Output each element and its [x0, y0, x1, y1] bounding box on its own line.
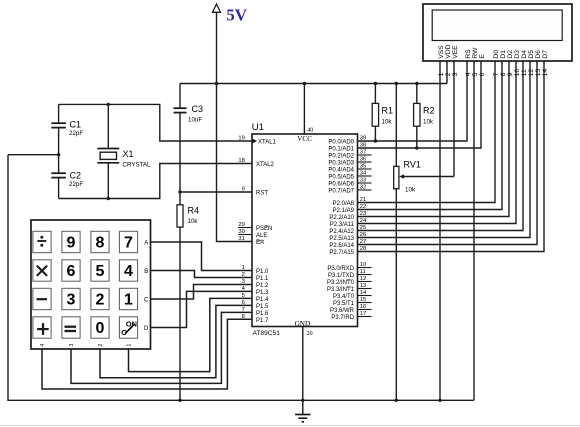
pin P0.6 33 [328, 178, 371, 188]
pin P3.0 10 [327, 262, 371, 272]
svg-text:29: 29 [238, 222, 244, 228]
svg-text:P3.1/TXD: P3.1/TXD [328, 273, 355, 279]
pin P3.1 11 [328, 269, 372, 279]
svg-text:4: 4 [40, 344, 46, 347]
svg-text:1: 1 [124, 292, 133, 309]
svg-text:18: 18 [238, 158, 244, 164]
wire keypad col4 to P1.7 [42, 319, 252, 389]
pin LCD 12 D5 [528, 50, 535, 76]
svg-text:P2.3/A11: P2.3/A11 [330, 222, 355, 228]
pin P3.7 17 [331, 311, 371, 321]
crystal X1 [97, 103, 151, 200]
pin LCD 11 D4 [521, 50, 528, 76]
wire keypad A to P1.0 [151, 242, 253, 271]
keypad button 1 [119, 288, 137, 309]
svg-text:P3.0/RXD: P3.0/RXD [327, 266, 354, 272]
keypad button &#247; [33, 231, 51, 252]
pin P1.3 4 [242, 286, 269, 296]
node A [144, 240, 148, 246]
svg-text:7: 7 [493, 72, 500, 76]
svg-text:12: 12 [360, 276, 366, 282]
pin P0.2 37 [328, 150, 371, 160]
keypad column labels [40, 344, 133, 347]
svg-text:D1: D1 [500, 50, 507, 59]
svg-text:XTAL2: XTAL2 [256, 162, 275, 168]
pin P2.2 23 [329, 211, 366, 221]
pin P2.5 26 [329, 232, 366, 242]
svg-text:12: 12 [528, 69, 535, 77]
svg-text:ALE: ALE [256, 233, 267, 239]
svg-text:22pF: 22pF [69, 181, 83, 188]
resistor R4 [177, 192, 199, 402]
svg-text:3: 3 [67, 292, 76, 309]
keypad button + [33, 317, 51, 338]
wire keypad col2 to P1.5 [100, 305, 252, 377]
pin ALE 30 [238, 229, 267, 239]
pin LCD 3 VEE [452, 45, 459, 77]
op-amp U1 AT89C51 body [252, 122, 358, 337]
pin LCD 7 D0 [493, 50, 500, 76]
keypad button 7 [119, 231, 137, 252]
pin LCD 14 D7 [542, 50, 549, 76]
svg-text:P1.1: P1.1 [256, 276, 269, 282]
svg-text:14: 14 [360, 290, 367, 296]
pin P2.4 25 [329, 225, 366, 235]
svg-text:16: 16 [360, 304, 366, 310]
svg-text:CRYSTAL: CRYSTAL [123, 161, 152, 168]
svg-text:4: 4 [465, 72, 472, 76]
svg-text:P0.4/AD4: P0.4/AD4 [328, 168, 354, 174]
svg-text:33: 33 [360, 178, 366, 184]
wire VCC pin 40 [303, 82, 314, 134]
svg-text:D7: D7 [542, 50, 549, 59]
wire keypad col1 to P1.4 [129, 298, 253, 371]
wire keypad B to P1.1 [151, 271, 253, 278]
svg-text:8: 8 [96, 235, 105, 252]
svg-text:D0: D0 [493, 50, 500, 59]
svg-text:AT89C51: AT89C51 [253, 330, 281, 337]
svg-text:P1.0: P1.0 [256, 269, 269, 275]
keypad button = [62, 317, 80, 338]
keypad button 0 [91, 317, 109, 338]
svg-text:RS: RS [465, 49, 472, 59]
LCD display LM016L body [423, 4, 572, 61]
svg-text:P2.0/A8: P2.0/A8 [333, 201, 355, 207]
svg-text:31: 31 [238, 236, 244, 242]
pin PSEN 29 [238, 222, 272, 232]
wire keypad C to P1.2 [151, 284, 253, 299]
pin P2.1 22 [333, 204, 367, 214]
svg-text:EA: EA [256, 240, 264, 246]
svg-text:D3: D3 [514, 50, 521, 59]
svg-text:P2.1/A9: P2.1/A9 [333, 208, 355, 214]
pin EA 31 [238, 236, 264, 246]
svg-text:C: C [144, 297, 149, 303]
pin P3.3 13 [327, 283, 372, 293]
svg-text:P1.5: P1.5 [256, 304, 269, 310]
svg-text:D: D [144, 326, 149, 332]
svg-text:5: 5 [472, 72, 479, 76]
pin P0.1 38 [328, 143, 366, 153]
svg-text:P2.7/A15: P2.7/A15 [329, 250, 354, 256]
keypad button 8 [91, 231, 109, 252]
node B [144, 269, 148, 275]
svg-text:P0.2/AD2: P0.2/AD2 [328, 154, 354, 160]
svg-text:P0.6/AD6: P0.6/AD6 [328, 182, 354, 188]
pin P2.0 21 [333, 197, 367, 207]
svg-text:RW: RW [472, 47, 479, 59]
svg-text:P1.6: P1.6 [256, 311, 269, 317]
svg-text:R2: R2 [423, 106, 435, 116]
svg-text:37: 37 [360, 150, 366, 156]
pin P0.4 35 [328, 164, 371, 174]
wire P0.0 to LCD RS [358, 61, 468, 141]
svg-text:P0.1/AD1: P0.1/AD1 [328, 147, 354, 153]
svg-text:RST: RST [256, 191, 268, 197]
keypad button 5 [91, 260, 109, 281]
node D [144, 326, 149, 332]
svg-text:14: 14 [542, 69, 549, 77]
wire P2.3 to LCD D3 [358, 61, 517, 224]
svg-text:10uF: 10uF [188, 116, 202, 123]
svg-text:10: 10 [360, 262, 366, 268]
svg-text:P2.2/A10: P2.2/A10 [329, 215, 354, 221]
svg-text:3: 3 [69, 344, 75, 347]
svg-text:10k: 10k [382, 119, 393, 126]
wire P2.0 to LCD D0 [358, 61, 496, 203]
wire keypad D to P1.3 [151, 291, 253, 327]
pin XTAL2 18 [238, 158, 274, 168]
svg-text:P3.6/WR: P3.6/WR [330, 308, 355, 314]
svg-text:1: 1 [438, 72, 445, 76]
svg-text:R1: R1 [382, 106, 394, 116]
svg-text:2: 2 [445, 72, 452, 76]
svg-text:9: 9 [67, 235, 76, 252]
svg-text:22pF: 22pF [69, 130, 83, 137]
pin P2.3 24 [330, 218, 367, 228]
svg-text:P3.3/INT1: P3.3/INT1 [327, 287, 355, 293]
svg-text:P0.5/AD5: P0.5/AD5 [328, 175, 354, 181]
wire P2.2 to LCD D2 [358, 61, 510, 217]
wire P2.6 to LCD D6 [358, 61, 538, 245]
svg-text:10: 10 [514, 69, 521, 77]
pin LCD 2 VDD [445, 44, 452, 76]
svg-text:13: 13 [360, 283, 366, 289]
wire ground rail [8, 155, 474, 401]
node RST junction [178, 190, 181, 193]
svg-text:11: 11 [521, 69, 528, 76]
ground [295, 400, 310, 422]
svg-text:VSS: VSS [438, 45, 445, 59]
pin P1.6 7 [242, 307, 269, 317]
pin LCD 10 D3 [514, 50, 521, 76]
svg-text:P3.7/RD: P3.7/RD [331, 315, 354, 321]
pin P0.5 34 [328, 171, 371, 181]
pin LCD 5 RW [472, 47, 479, 76]
svg-text:40: 40 [307, 127, 313, 133]
svg-text:VDD: VDD [445, 44, 452, 58]
pin P1.5 6 [242, 300, 269, 310]
svg-text:R4: R4 [188, 205, 200, 215]
svg-text:36: 36 [360, 157, 366, 163]
pin P3.2 12 [327, 276, 372, 286]
keypad button 9 [62, 231, 80, 252]
svg-text:P3.2/INT0: P3.2/INT0 [327, 280, 355, 286]
svg-text:6: 6 [479, 72, 486, 76]
resistor R1 [372, 82, 393, 143]
keypad button 6 [62, 260, 80, 281]
pin LCD 13 D6 [535, 50, 542, 76]
pin LCD 9 D2 [507, 50, 514, 76]
svg-text:VCC: VCC [297, 135, 312, 143]
svg-text:19: 19 [238, 136, 244, 142]
svg-text:0: 0 [96, 320, 105, 337]
svg-text:XTAL1: XTAL1 [258, 140, 277, 146]
keypad button &#215; [33, 260, 51, 281]
svg-text:2: 2 [96, 292, 105, 309]
svg-text:P1.7: P1.7 [256, 318, 269, 324]
pin P1.1 2 [242, 272, 269, 282]
svg-text:D2: D2 [507, 50, 514, 59]
pin P1.2 3 [242, 279, 269, 289]
keypad body [31, 220, 151, 349]
svg-text:D5: D5 [528, 50, 535, 59]
svg-text:P3.4/T0: P3.4/T0 [333, 294, 355, 300]
pin LCD 6 E [479, 54, 486, 77]
svg-text:10k: 10k [188, 218, 199, 225]
wire C1-C2 mid to ground [8, 154, 59, 156]
svg-text:C1: C1 [70, 119, 82, 129]
wire P2.5 to LCD D5 [358, 61, 531, 238]
pin P2.6 27 [329, 239, 366, 249]
svg-text:5: 5 [96, 263, 105, 280]
pin P0.0 39 [328, 136, 366, 146]
svg-text:9: 9 [507, 72, 514, 76]
pin LCD 4 RS [465, 49, 472, 76]
pin RST 9 [242, 187, 269, 197]
capacitor C1 [51, 104, 83, 154]
svg-text:3: 3 [452, 72, 459, 76]
svg-text:B: B [144, 269, 148, 275]
capacitor C3 [174, 84, 204, 193]
svg-text:P1.2: P1.2 [256, 283, 269, 289]
svg-text:A: A [144, 240, 148, 246]
pin P0.3 36 [328, 157, 371, 167]
svg-text:1: 1 [127, 344, 133, 347]
pin XTAL1 19 [238, 136, 276, 146]
svg-text:P2.4/A12: P2.4/A12 [329, 229, 354, 235]
power 5V symbol [213, 4, 248, 84]
pin P1.0 1 [242, 265, 269, 275]
svg-text:13: 13 [535, 69, 542, 77]
wire LCD VSS to ground [439, 61, 441, 400]
svg-text:30: 30 [238, 229, 244, 235]
svg-text:7: 7 [124, 235, 133, 252]
pin P0.7 32 [328, 185, 371, 195]
pin P3.5 15 [333, 297, 372, 307]
wire EA to 5V [217, 84, 253, 242]
svg-text:P1.4: P1.4 [256, 297, 269, 303]
svg-text:9: 9 [242, 187, 245, 193]
svg-text:34: 34 [360, 171, 367, 177]
pin LCD 1 VSS [438, 45, 445, 77]
svg-text:35: 35 [360, 164, 366, 170]
keypad button 2 [91, 288, 109, 309]
svg-text:32: 32 [360, 185, 366, 191]
wire 5V rail [180, 83, 447, 85]
svg-text:20: 20 [307, 331, 313, 337]
pin P2.7 28 [329, 246, 366, 256]
keypad button C/ON [119, 317, 137, 338]
svg-text:6: 6 [67, 263, 76, 280]
wire GND pin 20 [301, 327, 313, 402]
pin P1.4 5 [242, 293, 269, 303]
svg-text:P3.5/T1: P3.5/T1 [333, 301, 355, 307]
wire P2.7 to LCD D7 [358, 61, 545, 252]
svg-text:2: 2 [98, 344, 104, 347]
svg-text:10k: 10k [423, 119, 434, 126]
pin P3.4 14 [333, 290, 372, 300]
svg-text:10k: 10k [405, 186, 416, 193]
svg-text:D6: D6 [535, 50, 542, 59]
svg-text:C3: C3 [192, 104, 204, 114]
node C [144, 297, 149, 303]
svg-text:D4: D4 [521, 50, 528, 59]
wire P2.4 to LCD D4 [358, 61, 524, 231]
wire P0.1 to LCD E [358, 61, 482, 148]
wire crystal top rail [59, 104, 252, 141]
wire keypad col3 to P1.6 [71, 312, 252, 383]
svg-text:RV1: RV1 [404, 159, 421, 169]
keypad button 3 [62, 288, 80, 309]
svg-text:C2: C2 [70, 171, 82, 181]
svg-text:P0.0/AD0: P0.0/AD0 [328, 140, 354, 146]
capacitor C2 [51, 155, 83, 199]
svg-text:15: 15 [360, 297, 366, 303]
pin P3.6 16 [330, 304, 372, 314]
svg-text:P1.3: P1.3 [256, 290, 269, 296]
svg-text:P0.3/AD3: P0.3/AD3 [328, 161, 354, 167]
svg-text:8: 8 [500, 72, 507, 76]
resistor R2 [414, 82, 435, 150]
svg-text:11: 11 [360, 269, 366, 275]
svg-text:17: 17 [360, 311, 366, 317]
svg-text:PSEN: PSEN [256, 226, 272, 232]
svg-text:E: E [479, 54, 486, 59]
wire crystal bottom rail [59, 164, 252, 199]
svg-text:U1: U1 [252, 122, 264, 133]
wire LCD VDD to 5V rail [446, 61, 448, 84]
svg-text:P2.6/A14: P2.6/A14 [329, 243, 354, 249]
keypad button &#8722; [33, 288, 51, 309]
wire LCD VEE to RV1 wiper [453, 61, 455, 177]
svg-text:X1: X1 [123, 149, 134, 159]
pin LCD 8 D1 [500, 50, 507, 76]
wire RST [180, 191, 252, 193]
keypad button 4 [119, 260, 137, 281]
svg-text:5V: 5V [226, 5, 248, 24]
node 5V rail junction [215, 82, 218, 85]
svg-text:VEE: VEE [452, 45, 459, 59]
svg-text:4: 4 [124, 263, 133, 280]
svg-text:P0.7/AD7: P0.7/AD7 [328, 189, 354, 195]
bottom window edge line [0, 424, 580, 426]
wire LCD RW to ground [473, 61, 475, 400]
wire P2.1 to LCD D1 [358, 61, 503, 210]
potentiometer RV1 [394, 82, 454, 402]
pin P1.7 8 [242, 314, 269, 324]
svg-text:P2.5/A13: P2.5/A13 [329, 236, 354, 242]
